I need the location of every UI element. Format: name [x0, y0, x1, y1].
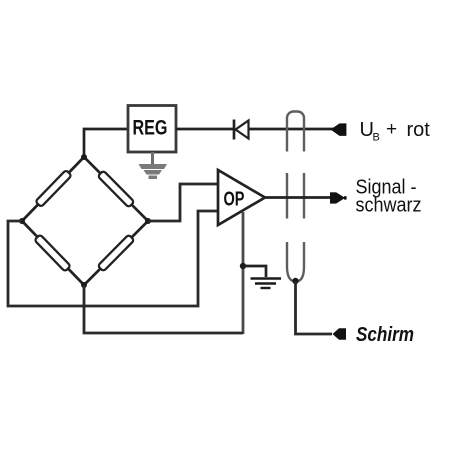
- svg-text:OP: OP: [224, 188, 245, 211]
- svg-text:REG: REG: [133, 117, 168, 140]
- Wheatstone bridge: edge bottom-right wire: [84, 221, 148, 285]
- wire: shield tap to Schirm arrowhead: [296, 282, 333, 335]
- junction: shield tap: [292, 278, 298, 284]
- cable shield bottom U (converging to shield tap): [287, 242, 304, 282]
- resistor R1 (top-left arm): [35, 170, 71, 207]
- ground below REG (chassis ground): [139, 152, 168, 179]
- junction: op-amp ground node: [240, 263, 246, 269]
- junction: bridge left vertex: [19, 218, 25, 224]
- cable shield middle section right line: [303, 173, 305, 219]
- Wheatstone bridge: edge top-left wire: [22, 157, 84, 221]
- cable shield middle section left line: [286, 173, 288, 219]
- wire: left vertex loop to op-amp inverting input: [8, 211, 218, 306]
- wire: bridge top vertex to REG input: [84, 129, 129, 157]
- Wheatstone bridge: edge bottom-left wire: [22, 221, 84, 285]
- junction: bridge top vertex: [81, 154, 87, 160]
- wire: REG output to diode: [176, 128, 233, 131]
- cable shield top arch: [287, 112, 304, 152]
- label Signal - schwarz: [356, 176, 422, 216]
- Wheatstone bridge: edge top-right wire: [84, 157, 148, 221]
- diode D1: [234, 120, 249, 140]
- arrowhead Schirm (points left): [333, 328, 347, 340]
- regulator U1 REG: [128, 106, 176, 153]
- op-amp U2: [218, 170, 265, 225]
- arrowhead Signal (points right): [330, 192, 347, 203]
- svg-text:+: +: [386, 119, 397, 140]
- wire: op-amp common down to bottom rail: [242, 212, 245, 334]
- ground symbol (signal ground): [251, 279, 282, 289]
- resistor R3 (bottom-left arm): [34, 234, 70, 271]
- svg-text:Schirm: Schirm: [356, 323, 414, 346]
- label UB + rot: [360, 119, 431, 144]
- wire: ground branch: [243, 266, 266, 277]
- svg-text:B: B: [373, 132, 380, 144]
- wire: right vertex to op-amp non-inverting input: [148, 184, 218, 221]
- svg-text:rot: rot: [407, 119, 431, 141]
- junction: bridge right vertex: [145, 218, 151, 224]
- svg-text:schwarz: schwarz: [356, 194, 422, 216]
- resistor R4 (bottom-right arm): [98, 235, 135, 272]
- wire: bridge bottom vertex to bottom rail: [84, 285, 243, 333]
- wire: op-amp output to Signal arrowhead: [264, 196, 332, 199]
- junction: bridge bottom vertex: [81, 282, 87, 288]
- resistor R2 (top-right arm): [98, 171, 135, 208]
- wire: diode to UB arrowhead: [249, 128, 335, 131]
- arrowhead UB (points left): [331, 123, 347, 135]
